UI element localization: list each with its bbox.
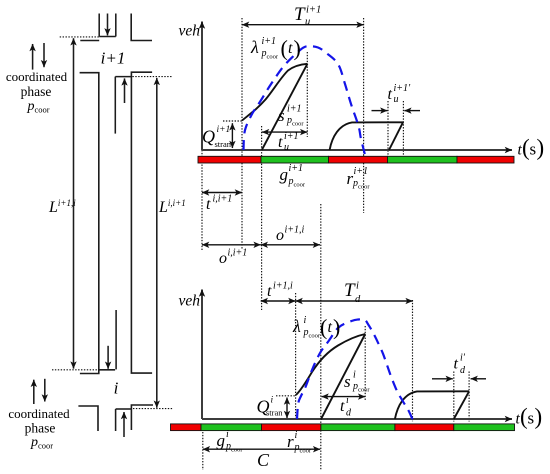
dotted guide at platoon arrival start (top plot) xyxy=(241,18,243,250)
i+1 northeast corner xyxy=(131,14,152,41)
southbound approach arrow at i xyxy=(107,346,109,369)
second discharge line (top) xyxy=(389,122,403,150)
dotted guide at top y-axis extension xyxy=(201,150,203,250)
dotted guide at platoon arrival start (bottom plot) xyxy=(295,293,297,420)
t_u-prime right pointer xyxy=(404,110,420,112)
svg-text:d: d xyxy=(355,294,361,305)
svg-text:coor: coor xyxy=(292,121,304,128)
top signal bar green 1 xyxy=(261,156,329,163)
svg-text:coor: coor xyxy=(358,184,370,191)
cumulative arrival curve (top) xyxy=(242,64,307,121)
svg-text:coordinated: coordinated xyxy=(6,69,68,84)
svg-text:stran: stran xyxy=(266,408,283,418)
offset arrow o^{i+1,i} xyxy=(261,244,320,246)
dotted guide at second green start (bottom) xyxy=(453,372,455,422)
dotted guide at second queue clear (bottom) xyxy=(468,372,470,422)
svg-text:coor: coor xyxy=(267,54,279,61)
dotted guide at bottom platoon end xyxy=(412,300,414,422)
svg-text:t: t xyxy=(206,196,211,213)
top signal bar green 2 xyxy=(388,156,458,163)
intersection i+1 north stop bar xyxy=(99,36,116,38)
top signal bar red 2 xyxy=(329,156,388,163)
svg-text:): ) xyxy=(294,36,301,61)
svg-text:veh: veh xyxy=(179,293,201,310)
dotted guide at top queue-clear point xyxy=(306,52,308,137)
svg-text:i: i xyxy=(271,396,274,406)
i southwest corner xyxy=(78,406,98,431)
svg-text:g: g xyxy=(280,165,289,184)
top plot x-axis xyxy=(202,149,512,151)
svg-text:i: i xyxy=(304,315,307,326)
i+1 west leg north edge xyxy=(80,40,99,42)
svg-text:t: t xyxy=(267,283,272,300)
svg-text:i+1,i: i+1,i xyxy=(273,281,293,292)
svg-text:Q: Q xyxy=(202,127,215,147)
svg-text:t: t xyxy=(454,356,459,373)
bottom signal bar red 1 xyxy=(171,424,202,431)
bottom signal bar red 2 xyxy=(262,424,321,431)
phase up arrow (top) xyxy=(32,44,34,70)
intersection i north stop bar xyxy=(99,369,115,371)
svg-text:i: i xyxy=(226,429,229,440)
svg-text:coor: coor xyxy=(294,182,306,189)
Q_stran vertical arrow (top) xyxy=(231,123,233,148)
svg-text:t: t xyxy=(328,319,333,336)
Q_stran vertical arrow (bottom) xyxy=(286,398,288,419)
saturation discharge line s (bottom) xyxy=(321,334,365,420)
svg-text:): ) xyxy=(535,404,543,429)
svg-text:i+1: i+1 xyxy=(287,104,302,115)
west road edge between intersections xyxy=(80,73,99,374)
svg-text:λ: λ xyxy=(250,37,259,57)
svg-text:i′: i′ xyxy=(460,353,466,364)
northbound approach arrow at i+1 xyxy=(124,78,126,103)
bottom plot y-axis xyxy=(201,290,203,420)
phase down arrow (top) xyxy=(43,43,45,67)
bottom signal bar red 3 xyxy=(395,424,454,431)
svg-text:λ: λ xyxy=(292,316,301,336)
svg-text:i+1: i+1 xyxy=(306,5,321,16)
svg-text:): ) xyxy=(333,315,340,340)
i south approach left edge xyxy=(115,409,117,431)
intersection i+1 north approach left edge xyxy=(98,14,100,37)
svg-text:(: ( xyxy=(281,36,288,61)
svg-text:phase: phase xyxy=(25,421,56,436)
top plot y-axis xyxy=(201,22,203,151)
svg-text:r: r xyxy=(287,432,294,451)
svg-text:i+1: i+1 xyxy=(262,36,277,47)
svg-text:i+1,i: i+1,i xyxy=(285,225,305,236)
svg-text:i+1′: i+1′ xyxy=(394,83,412,94)
intersection i+1 north approach right edge xyxy=(115,14,117,37)
travel time arrow t^{i,i+1} xyxy=(202,192,242,194)
top signal bar red 1 xyxy=(198,156,261,163)
dotted guide at cycle start (bottom) xyxy=(202,432,204,470)
distance arrow L i,i+1 xyxy=(156,78,158,408)
svg-text:t: t xyxy=(288,40,293,57)
dotted guide at second queue clear (top) xyxy=(402,101,404,156)
svg-text:coor: coor xyxy=(231,447,243,454)
t_u-prime left pointer xyxy=(372,110,388,112)
svg-text:phase: phase xyxy=(21,84,52,99)
svg-text:o: o xyxy=(219,250,227,267)
t_d interval arrow xyxy=(322,396,366,398)
svg-text:g: g xyxy=(217,431,226,450)
svg-text:i+1: i+1 xyxy=(354,166,369,177)
svg-text:i+1: i+1 xyxy=(101,49,126,68)
svg-text:coor: coor xyxy=(358,387,370,394)
svg-text:i: i xyxy=(114,379,119,398)
southbound approach arrow at i+1 xyxy=(107,14,109,36)
i+1 south approach centre line upper xyxy=(114,77,116,134)
svg-text:(: ( xyxy=(320,315,327,340)
offset arrow o^{i,i+1} xyxy=(202,244,261,246)
saturation discharge line s (top) xyxy=(262,64,308,150)
dotted guide at second green start (top) xyxy=(387,101,389,156)
bottom signal bar green 1 xyxy=(201,424,262,431)
svg-text:s: s xyxy=(344,372,351,391)
travel time arrow t^{i+1,i} xyxy=(261,300,296,302)
svg-text:i: i xyxy=(295,430,298,441)
phase down arrow (bottom) xyxy=(44,379,46,402)
dotted guide at top platoon end xyxy=(363,18,365,213)
svg-text:o: o xyxy=(276,227,284,244)
bottom signal bar green 3 xyxy=(454,424,515,431)
svg-text:s: s xyxy=(528,409,535,428)
T_d interval arrow xyxy=(296,300,413,302)
svg-text:veh: veh xyxy=(179,23,201,40)
dotted arrival line west of i xyxy=(52,369,99,371)
svg-text:i+1: i+1 xyxy=(289,163,304,174)
svg-text:i+1: i+1 xyxy=(284,131,299,142)
centre line above intersection i xyxy=(115,310,117,369)
t_u interval arrow xyxy=(262,131,307,133)
dotted arrival line west of i+1 xyxy=(60,36,99,38)
east road edge between intersections xyxy=(131,72,152,373)
northbound approach arrow south of i xyxy=(123,412,125,437)
svg-text:C: C xyxy=(257,450,270,470)
second platoon curve (bottom) xyxy=(395,391,469,419)
distance arrow L i+1,i xyxy=(73,38,75,368)
dotted guide at bottom green start / red end xyxy=(320,204,322,470)
i+1 south stop bar xyxy=(115,76,131,78)
svg-text:s: s xyxy=(530,140,537,159)
phase up arrow (bottom) xyxy=(33,380,35,404)
svg-text:t: t xyxy=(388,86,393,103)
dotted guide at top green start xyxy=(261,126,263,310)
t_d-prime left pointer xyxy=(432,378,453,380)
svg-text:t: t xyxy=(340,398,345,415)
dotted level of initial queue (bottom) xyxy=(276,395,296,397)
svg-text:u: u xyxy=(305,17,310,28)
svg-text:): ) xyxy=(537,135,545,160)
svg-text:i: i xyxy=(346,395,349,406)
svg-text:i,i+1: i,i+1 xyxy=(228,248,248,259)
svg-text:i: i xyxy=(353,370,356,381)
svg-text:i+1: i+1 xyxy=(217,125,231,135)
svg-text:stran: stran xyxy=(215,139,232,149)
dotted guide at bottom queue-clear point xyxy=(364,326,366,400)
i southeast corner xyxy=(131,405,153,430)
t_d-prime right pointer xyxy=(471,378,486,380)
cycle length arrow C xyxy=(203,448,320,450)
dotted arrival line east of i+1 xyxy=(132,76,173,78)
arrival rate profile lambda (top, blue dashed) xyxy=(244,46,365,154)
bottom plot x-axis xyxy=(202,418,512,420)
svg-text:u: u xyxy=(284,142,289,153)
dotted level of initial queue (top) xyxy=(223,120,242,122)
bottom signal bar green 2 xyxy=(321,424,395,431)
T_u interval arrow xyxy=(242,24,364,26)
second platoon curve (top) xyxy=(330,122,403,150)
top signal bar red 3 xyxy=(457,156,514,163)
arrival rate profile lambda (bottom, blue dashed) xyxy=(297,319,413,420)
svg-text:u: u xyxy=(394,94,399,105)
svg-text:t: t xyxy=(278,134,283,151)
second discharge line (bottom) xyxy=(454,391,469,419)
cumulative arrival curve (bottom) xyxy=(296,334,365,395)
i south stop bar xyxy=(116,408,132,410)
dotted arrival line east of i xyxy=(133,408,173,410)
svg-text:coordinated: coordinated xyxy=(8,406,70,421)
svg-text:i: i xyxy=(356,281,359,292)
svg-text:s: s xyxy=(278,106,285,125)
svg-text:i,i+1: i,i+1 xyxy=(213,194,233,205)
